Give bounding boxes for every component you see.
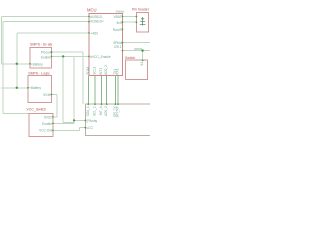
svg-text:S1: S1 (140, 62, 144, 66)
pin dot MCU pin VBAT (122, 16, 124, 18)
svg-text:#VCC_Enable: #VCC_Enable (90, 55, 110, 59)
pin dot header pin SWCLK (136, 21, 138, 23)
pin dot VCC switch pin 5V3C (52, 116, 54, 118)
pin dot conn pin SPI_TX (114, 103, 116, 105)
pin header symbol (140, 17, 146, 26)
wire VCC out to uCC pin (53, 128, 86, 131)
svg-text:SDA_1: SDA_1 (86, 106, 90, 116)
svg-text:SPKR: SPKR (134, 47, 143, 51)
svg-text:SWdio: SWdio (116, 9, 125, 13)
junction enable net (62, 55, 64, 57)
module box bottom connector (clipped) (85, 104, 151, 135)
pin dot conn pin PArray (84, 120, 86, 122)
svg-text:#USB-D+: #USB-D+ (90, 19, 104, 23)
pin dot MCU pin USB-D- (88, 16, 90, 18)
pin dot SMPS2 pin 5V3b (51, 94, 53, 96)
junction battery rail B (16, 87, 18, 89)
junction PArray net (73, 119, 75, 121)
junction battery rail A (16, 63, 18, 65)
svg-text:SMPS - 6v aly: SMPS - 6v aly (30, 42, 52, 46)
wire battery to MCU pin (17, 32, 89, 34)
svg-text:SPI_RX: SPI_RX (116, 105, 120, 117)
pin dot header pin SWDIO (136, 16, 138, 18)
wire SMPS1 PGood (52, 52, 84, 104)
svg-text:SCL_1: SCL_1 (93, 106, 97, 116)
module box Switch (126, 60, 148, 80)
svg-text:SMPS - Logic: SMPS - Logic (28, 72, 50, 76)
pin dot conn pin SPI_RX (117, 103, 119, 105)
wire SMPS1 Enable to MCU (52, 55, 90, 57)
svg-text:SDA1: SDA1 (86, 66, 90, 75)
svg-text:Pin header: Pin header (132, 7, 150, 11)
svg-text:Enable: Enable (41, 55, 51, 59)
svg-text:+Battery: +Battery (29, 86, 41, 90)
svg-text:INT1: INT1 (99, 68, 103, 75)
svg-text:5v0: 5v0 (116, 21, 121, 25)
svg-text:Run/S: Run/S (113, 28, 122, 32)
pin dot conn pin INT (101, 103, 103, 105)
svg-text:SCL1: SCL1 (93, 67, 97, 75)
wire battery feed SMPS1 (2, 63, 30, 65)
module box VCC_Switch (29, 113, 53, 136)
svg-text:5V3b: 5V3b (43, 93, 51, 97)
wire battery feed SMPS2 (1, 87, 28, 89)
wire switch net (122, 51, 150, 61)
wire MCU bottom pin 5 (114, 76, 116, 105)
svg-text:VCC-Out: VCC-Out (39, 129, 52, 133)
pin dot conn pin SCL (94, 103, 96, 105)
pin dot MCU pin AD0 (88, 32, 90, 34)
pin dot conn pin SDA (87, 103, 89, 105)
svg-text:MCU: MCU (87, 8, 97, 13)
svg-text:INT_A: INT_A (99, 105, 103, 115)
svg-text:PGood: PGood (41, 51, 51, 55)
pin dot MCU pin SPKLD (122, 42, 124, 44)
svg-text:5V3C: 5V3C (44, 116, 53, 120)
pin dot MCU pin Run/Stop (122, 28, 124, 30)
svg-text:uCC: uCC (87, 126, 94, 130)
wire rail B to VCC switch (3, 113, 29, 115)
module box MCU U1 (89, 13, 122, 75)
red module titles (27, 7, 150, 111)
wire left rail vertical B (2, 22, 4, 114)
wire MCU bottom pin 1 (87, 76, 89, 105)
pin dot switch pin S1 (142, 60, 144, 62)
svg-text:Switch: Switch (125, 56, 135, 60)
wire net SWDIO top rail left (2, 16, 89, 18)
pin dot SMPS1 pin PGood (51, 51, 53, 53)
pin dot SMPS1 pin +Battery (29, 63, 31, 65)
pin dot VCC switch pin Enable (52, 122, 54, 124)
junction switch net (141, 49, 143, 51)
pin dot conn pin AD0 (106, 103, 108, 105)
svg-text:RX1: RX1 (116, 68, 120, 74)
wire net SWCLK top rail left (3, 21, 89, 23)
pin dot MCU pin USB-D+ (88, 21, 90, 23)
wire battery vertical riser (16, 33, 18, 88)
svg-text:VCC_Switch: VCC_Switch (27, 108, 47, 112)
module box SMPS1 (30, 48, 52, 68)
pin dot MCU pin SPI (122, 50, 124, 52)
wire net SWDIO MCU to pin header (122, 16, 136, 18)
wire left rail vertical A (1, 17, 3, 64)
svg-text:AD0_2: AD0_2 (104, 106, 108, 116)
pin dot MCU pin VCC_Enable (88, 56, 90, 58)
wire enable branch 1 (63, 56, 74, 122)
pin dot MCU pin SWD (122, 21, 124, 23)
pin dot VCC switch pin VCC-Out (52, 130, 54, 132)
pin dot SMPS2 pin +Battery (27, 87, 29, 89)
wire SMPS2 5V to VCC switch (52, 94, 58, 117)
pin dot conn pin uCC (84, 127, 86, 129)
module box SMPS-Logic (28, 75, 52, 102)
wire MCU bottom pin 6 (117, 76, 119, 105)
svg-text:I2S.1: I2S.1 (114, 45, 122, 49)
svg-text:AD0_2: AD0_2 (104, 65, 108, 75)
svg-text:+Battery: +Battery (31, 62, 43, 66)
wire enable branch 2 (53, 56, 86, 123)
svg-text:Enable: Enable (42, 122, 52, 126)
wire MCU bottom pin 4 (106, 76, 108, 105)
wire MCU bottom pin 2 (94, 76, 96, 105)
svg-text:(PArray: (PArray (87, 119, 98, 123)
pin dot SMPS1 pin Enable (51, 56, 53, 58)
svg-text:VBAT: VBAT (114, 15, 122, 19)
wire MCU bottom pin 3 (101, 76, 103, 105)
module box pin header J1 (136, 13, 148, 32)
wire speaker net (122, 42, 150, 44)
wire net SWCLK MCU to pin header (122, 21, 136, 23)
svg-text:+4D0: +4D0 (90, 32, 98, 36)
